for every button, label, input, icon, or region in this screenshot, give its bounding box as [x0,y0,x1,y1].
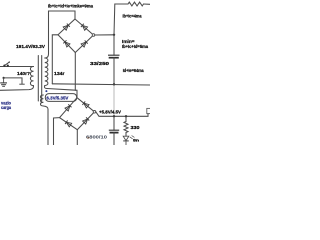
node rail-LED [125,115,127,117]
capacitor C1 33/250 [108,55,120,58]
svg-text:Ib+Ic+Id=5ma: Ib+Ic+Id=5ma [122,44,148,49]
bridge rectifier D1 (HV) diamond [58,19,94,53]
node rail-C2 [113,115,115,117]
wire HV secondary bottom lead [44,86,75,91]
terminal 6.3V out box [147,108,152,113]
orange mark [87,137,89,139]
svg-text:330: 330 [131,125,141,130]
wire bridge2 left leg [54,118,60,145]
diode D1b [82,25,87,30]
wire bridge2 bottom leg [76,130,78,145]
wire mains line L [0,66,34,68]
wire bridge1 bottom leg [74,53,76,91]
bridge rectifier D2 (6.3V) diamond [60,98,95,130]
diode D2b [84,103,89,108]
diode D1a [63,25,68,30]
capacitor C2 6800/10 [109,130,119,132]
svg-text:6800/10: 6800/10 [86,134,108,139]
svg-text:33/250: 33/250 [90,61,110,66]
transformer T1 primary winding [30,67,33,86]
transformer T1 6.3V winding squiggle [40,95,43,106]
transformer T1 core [37,56,39,102]
wire heater lead down [43,106,48,145]
diode D2a [65,106,70,111]
switch S1 (closed, on mains line) [3,61,10,66]
svg-text:191.4V/93.3V: 191.4V/93.3V [16,44,46,49]
svg-text:Id+Ie=64ma: Id+Ie=64ma [123,68,144,73]
svg-text:134r: 134r [54,71,65,76]
wire HV secondary top lead [45,11,75,58]
resistor R1 (top right) [128,2,144,6]
wire ground tap [4,78,22,84]
terminal bridge1 + [92,34,95,37]
wire B+ riser [114,4,128,35]
transformer T1 6.3V winding (capsule) [45,94,76,102]
ground (chassis) [0,77,7,87]
svg-text:6.3V/5.35V: 6.3V/5.35V [46,95,69,100]
wire to right edge [144,3,151,5]
wire C2 down [113,133,115,145]
svg-text:140r?: 140r? [17,71,30,76]
svg-text:+5.8V/4.5V: +5.8V/4.5V [99,110,121,115]
wire bridge1 + output [95,34,114,36]
wire +6.3V rail [96,112,148,117]
earth bar [19,83,24,85]
diode D2c [66,122,71,127]
svg-text:8n: 8n [133,139,139,143]
wire mains line N [0,86,34,91]
wire B+ to C1 [113,35,115,55]
diode D1c [65,42,70,47]
node C1 ground [113,83,115,85]
wire rail to C2 [113,116,115,130]
diode D2d [83,119,88,124]
node heater blue dot [45,90,47,92]
wire bridge1 AC left leg [52,35,58,84]
transformer T1 HV secondary winding [45,58,48,86]
diode D1d [81,42,86,47]
wire to bridge D2 AC top [76,90,78,98]
terminal bridge2 + [93,111,96,114]
wire C1 to ground bus [113,58,115,85]
node B+ [113,34,115,36]
svg-text:Ib+Ic=4ma: Ib+Ic=4ma [123,14,142,19]
wire ground bus [52,84,150,85]
LED D3 [123,136,134,146]
svg-text:carga: carga [1,105,12,110]
resistor R2 330 [125,116,127,121]
svg-text:Ib+Ic+Id+Ie+Imke=9ma: Ib+Ic+Id+Ie+Imke=9ma [48,4,93,9]
wire faint bus drop [113,85,115,117]
